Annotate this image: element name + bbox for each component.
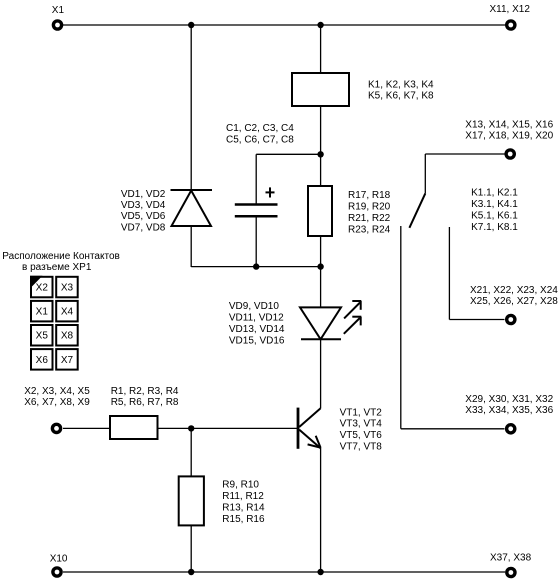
svg-text:R19, R20: R19, R20: [348, 201, 391, 212]
svg-text:VD11, VD12: VD11, VD12: [229, 313, 284, 324]
svg-text:X6, X7, X8, X9: X6, X7, X8, X9: [24, 397, 90, 408]
svg-text:X33, X34, X35, X36: X33, X34, X35, X36: [465, 405, 553, 416]
svg-text:X2, X3, X4, X5: X2, X3, X4, X5: [24, 386, 90, 397]
svg-text:VT3, VT4: VT3, VT4: [340, 419, 383, 430]
svg-text:X3: X3: [61, 283, 74, 294]
svg-text:X17, X18, X19, X20: X17, X18, X19, X20: [465, 131, 553, 142]
svg-text:R9, R10: R9, R10: [222, 480, 259, 491]
svg-text:X13, X14, X15, X16: X13, X14, X15, X16: [465, 120, 553, 131]
svg-text:K5, K6, K7, K8: K5, K6, K7, K8: [368, 91, 434, 102]
svg-text:R5, R6, R7, R8: R5, R6, R7, R8: [111, 397, 179, 408]
svg-text:VD5, VD6: VD5, VD6: [121, 211, 166, 222]
svg-text:K7.1, K8.1: K7.1, K8.1: [471, 222, 518, 233]
svg-text:VT1, VT2: VT1, VT2: [340, 407, 383, 418]
svg-text:в разъеме XP1: в разъеме XP1: [22, 262, 92, 273]
svg-text:VT5, VT6: VT5, VT6: [340, 430, 383, 441]
svg-text:X4: X4: [61, 307, 74, 318]
svg-text:VT7, VT8: VT7, VT8: [340, 442, 383, 453]
svg-text:VD3, VD4: VD3, VD4: [121, 200, 166, 211]
svg-text:R13, R14: R13, R14: [222, 503, 265, 514]
svg-text:VD13, VD14: VD13, VD14: [229, 324, 285, 335]
svg-text:C5, C6, C7, C8: C5, C6, C7, C8: [226, 135, 294, 146]
svg-text:K1, K2, K3, K4: K1, K2, K3, K4: [368, 80, 434, 91]
svg-text:X10: X10: [50, 553, 68, 564]
svg-text:X6: X6: [36, 355, 49, 366]
svg-text:VD7, VD8: VD7, VD8: [121, 222, 166, 233]
svg-text:X5: X5: [36, 331, 49, 342]
svg-text:X1: X1: [36, 307, 49, 318]
svg-text:Расположение Контактов: Расположение Контактов: [2, 251, 120, 262]
svg-text:R15, R16: R15, R16: [222, 514, 265, 525]
svg-text:X2: X2: [36, 283, 49, 294]
svg-text:X37, X38: X37, X38: [490, 553, 532, 564]
svg-text:X1: X1: [52, 5, 65, 16]
svg-text:X7: X7: [61, 355, 74, 366]
svg-text:R11, R12: R11, R12: [222, 491, 264, 502]
svg-text:R23, R24: R23, R24: [348, 224, 391, 235]
svg-text:X21, X22, X23, X24: X21, X22, X23, X24: [470, 285, 558, 296]
svg-text:X11, X12: X11, X12: [490, 4, 531, 15]
svg-text:VD1, VD2: VD1, VD2: [121, 189, 166, 200]
svg-text:X29, X30, X31, X32: X29, X30, X31, X32: [465, 394, 553, 405]
svg-text:VD9, VD10: VD9, VD10: [229, 301, 279, 312]
svg-text:R17, R18: R17, R18: [348, 190, 391, 201]
svg-text:K3.1, K4.1: K3.1, K4.1: [471, 199, 518, 210]
svg-text:VD15, VD16: VD15, VD16: [229, 335, 285, 346]
svg-text:R1, R2, R3, R4: R1, R2, R3, R4: [111, 386, 179, 397]
svg-text:C1, C2, C3, C4: C1, C2, C3, C4: [226, 123, 294, 134]
svg-text:X8: X8: [61, 331, 74, 342]
svg-text:K5.1, K6.1: K5.1, K6.1: [471, 211, 518, 222]
svg-text:X25, X26, X27, X28: X25, X26, X27, X28: [470, 296, 558, 307]
svg-text:R21, R22: R21, R22: [348, 213, 391, 224]
svg-text:K1.1, K2.1: K1.1, K2.1: [471, 188, 518, 199]
